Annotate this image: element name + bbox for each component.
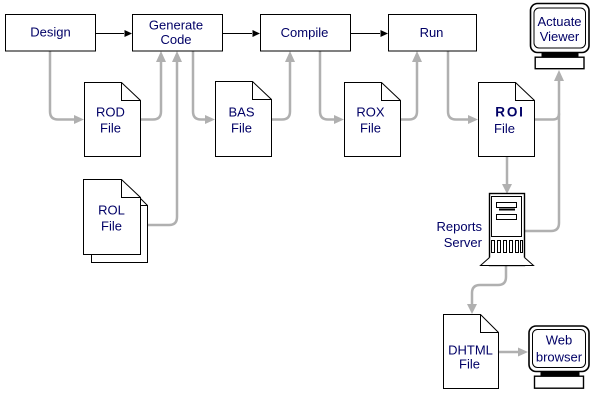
wire Reports Server to Actuate Viewer bbox=[525, 77, 559, 231]
wire Generate Code to Compile (black) bbox=[222, 33, 252, 35]
wire ROL File to Generate Code bbox=[148, 58, 177, 225]
svg-text:browser: browser bbox=[536, 350, 583, 365]
svg-text:File: File bbox=[101, 219, 122, 234]
svg-text:Web: Web bbox=[546, 333, 573, 348]
icon Web browser monitor bbox=[529, 326, 589, 388]
file BAS bbox=[216, 82, 272, 157]
arrowhead black into Run bbox=[381, 30, 389, 37]
svg-text:Reports: Reports bbox=[436, 219, 482, 234]
box Design bbox=[6, 15, 96, 52]
box Generate Code bbox=[133, 15, 223, 52]
arrowhead into ROI File bbox=[468, 115, 478, 124]
arrowhead into Actuate Viewer bbox=[554, 70, 564, 81]
svg-text:Code: Code bbox=[160, 32, 191, 47]
wire Design to ROD File bbox=[50, 51, 77, 120]
file ROL (stacked, back sheet) bbox=[92, 198, 148, 263]
arrowhead into ROD File bbox=[74, 115, 84, 124]
wire Generate Code to BAS File bbox=[193, 51, 208, 120]
file ROL (front sheet) bbox=[84, 180, 141, 255]
box Compile bbox=[261, 15, 351, 52]
svg-text:File: File bbox=[459, 357, 480, 372]
arrowhead into BAS File bbox=[205, 115, 215, 124]
svg-text:Actuate: Actuate bbox=[537, 14, 581, 29]
svg-text:Compile: Compile bbox=[281, 25, 329, 40]
icon Actuate Viewer monitor bbox=[531, 4, 590, 69]
file ROI bbox=[479, 83, 535, 157]
svg-text:File: File bbox=[100, 121, 121, 136]
arrowhead into Generate Code (from ROD) bbox=[156, 51, 166, 62]
wire ROI File down to Reports Server bbox=[506, 157, 509, 187]
svg-text:ROX: ROX bbox=[356, 105, 385, 120]
wire ROD File to Generate Code bbox=[141, 58, 161, 120]
file DHTML bbox=[444, 315, 499, 389]
svg-text:Run: Run bbox=[420, 25, 444, 40]
svg-text:DHTML: DHTML bbox=[448, 343, 493, 358]
wire Design to Generate Code (black) bbox=[95, 33, 124, 35]
box Run bbox=[389, 15, 477, 52]
arrowhead into Web browser bbox=[518, 348, 528, 357]
svg-text:File: File bbox=[360, 121, 381, 136]
arrowhead into DHTML File bbox=[467, 304, 477, 314]
file ROD bbox=[85, 83, 141, 157]
wire Compile to Run (black) bbox=[350, 33, 380, 35]
wire BAS File to Compile bbox=[272, 58, 290, 120]
svg-text:File: File bbox=[494, 121, 515, 136]
wire DHTML File to Web browser bbox=[499, 351, 520, 354]
svg-text:Viewer: Viewer bbox=[540, 29, 580, 44]
wire ROX File to Run bbox=[401, 58, 417, 120]
wire Reports Server to DHTML File bbox=[472, 266, 506, 307]
wire Compile to ROX File bbox=[320, 51, 337, 120]
svg-text:Server: Server bbox=[444, 235, 483, 250]
arrowhead into Compile bbox=[285, 51, 295, 62]
arrowhead into Run bbox=[412, 51, 422, 62]
svg-text:Generate: Generate bbox=[149, 18, 203, 33]
arrowhead black into Compile bbox=[253, 30, 261, 37]
icon Reports Server tower bbox=[481, 194, 534, 266]
svg-text:BAS: BAS bbox=[228, 105, 254, 120]
svg-text:ROI: ROI bbox=[495, 105, 524, 120]
svg-text:ROL: ROL bbox=[98, 203, 125, 218]
wire Run to ROI File bbox=[448, 51, 471, 120]
arrowhead into ROX File bbox=[334, 115, 344, 124]
arrowhead into Reports Server bbox=[502, 184, 512, 194]
arrowhead into Generate Code (from ROL) bbox=[172, 51, 182, 62]
svg-text:ROD: ROD bbox=[96, 105, 125, 120]
file ROX bbox=[345, 83, 401, 157]
arrowhead black into Generate Code bbox=[125, 30, 133, 37]
svg-text:File: File bbox=[231, 121, 252, 136]
wire ROI File to Actuate Viewer vertical bbox=[535, 114, 559, 120]
label Reports Server bbox=[436, 219, 482, 250]
svg-text:Design: Design bbox=[30, 25, 70, 40]
